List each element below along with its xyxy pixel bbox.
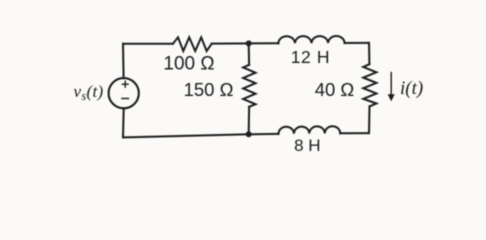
node B junction dot (bottom) bbox=[246, 131, 252, 137]
resistor R 100ohm (horizontal zigzag) bbox=[173, 37, 212, 51]
node A junction dot (top) bbox=[246, 40, 252, 46]
voltage source VS circle bbox=[109, 78, 139, 108]
voltage source minus sign bbox=[121, 98, 129, 100]
wire bottom middle segment bbox=[249, 133, 279, 135]
inductor L1 12H (top) bbox=[278, 36, 344, 43]
svg-text:i(t): i(t) bbox=[400, 78, 423, 99]
resistor R 150ohm vertical: top stub bbox=[248, 43, 250, 64]
resistor R 150ohm: bottom stub bbox=[248, 107, 250, 135]
svg-text:100 Ω: 100 Ω bbox=[163, 54, 214, 75]
wire top-right segment bbox=[345, 42, 369, 44]
wire bottom-left segment bbox=[123, 134, 249, 137]
wire bottom-right segment bbox=[340, 132, 369, 134]
wire left vertical top bbox=[122, 44, 125, 78]
svg-text:12 H: 12 H bbox=[291, 47, 330, 67]
svg-text:8 H: 8 H bbox=[294, 136, 320, 155]
svg-text:40 Ω: 40 Ω bbox=[315, 79, 355, 100]
wire left vertical bottom bbox=[122, 108, 125, 137]
svg-text:vs(t): vs(t) bbox=[74, 82, 104, 103]
resistor R 40ohm (vertical zigzag) bbox=[363, 64, 376, 106]
wire top-left segment bbox=[123, 43, 173, 45]
wire right-top vertical bbox=[368, 43, 370, 64]
voltage source plus sign bbox=[122, 81, 129, 88]
paper background bbox=[0, 0, 486, 163]
current arrow i(t) bbox=[388, 72, 395, 102]
wire top middle segment bbox=[212, 42, 279, 44]
wire right-bottom vertical bbox=[368, 106, 371, 133]
svg-text:150 Ω: 150 Ω bbox=[184, 79, 234, 100]
resistor R 150ohm (vertical zigzag) bbox=[243, 65, 255, 107]
inductor L2 8H (bottom) bbox=[278, 126, 340, 134]
